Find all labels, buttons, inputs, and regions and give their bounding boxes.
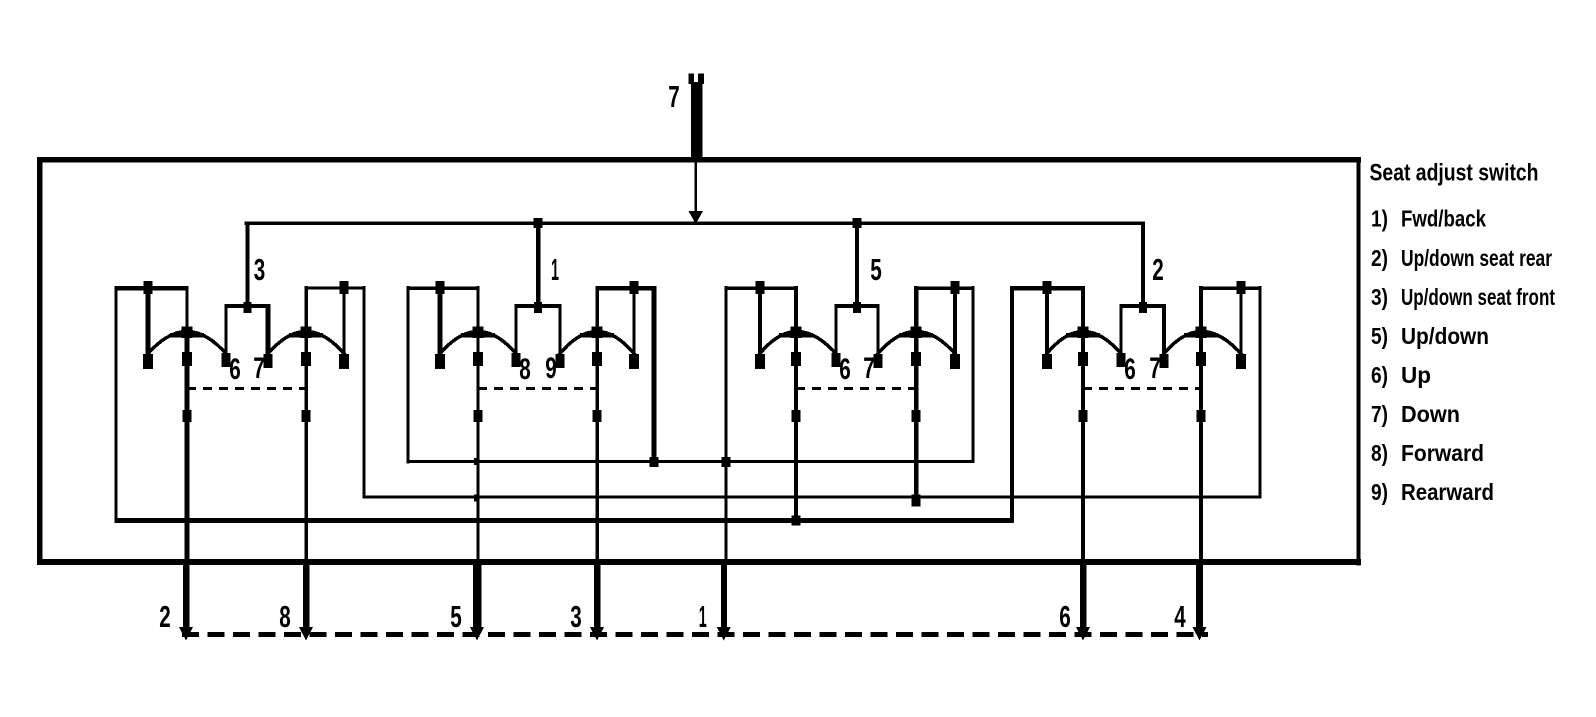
node S1 left pole lower junction xyxy=(183,410,192,422)
node S4 right pole pivot xyxy=(1184,327,1218,339)
node S3 right pole lower junction xyxy=(912,410,921,422)
label 3 (switch common wire) xyxy=(254,252,266,287)
switch S1 outer-right wire xyxy=(362,286,365,498)
wire net B (outer contacts S1-right/S3-right-pole/S4-right) xyxy=(363,496,1262,499)
switch S3 common pocket xyxy=(832,302,883,368)
svg-text:5: 5 xyxy=(450,599,462,634)
switch S3 top-right contact rail xyxy=(915,286,975,290)
switch S1 right pole wire xyxy=(304,286,308,565)
label 9 (switch S2 right throw) xyxy=(545,352,557,385)
label 6 (switch S1 left throw) xyxy=(229,353,241,386)
svg-text:9): 9) xyxy=(1371,479,1388,505)
switch S4 outer-left wire xyxy=(1010,286,1014,522)
wire pin7 to internal bus xyxy=(689,162,704,224)
label 7 (feed wire) xyxy=(668,79,680,114)
wire exit pin 2 (bottom) xyxy=(179,559,193,641)
svg-text:1: 1 xyxy=(551,252,559,287)
switch S4 common pocket xyxy=(1117,302,1169,368)
node S1 right pole lower junction xyxy=(302,410,311,422)
legend item pin 7: Down xyxy=(1371,401,1460,427)
node S3 left pole pivot xyxy=(779,327,813,339)
switch S3 top-left contact rail xyxy=(725,286,798,290)
node nub S2 left pole crossing net B xyxy=(474,494,479,501)
legend item pin 9: Rearward xyxy=(1371,479,1494,505)
wire exit pin 8 (bottom) xyxy=(299,559,313,641)
switch S1 left pole wire xyxy=(185,286,190,565)
wire net A (outer contacts S2/S3, to exit 1) xyxy=(407,460,975,463)
wire exit pin 5 (bottom) xyxy=(470,559,484,641)
label 7 (switch S4 right throw) xyxy=(1149,352,1161,385)
node S2 right contact tap xyxy=(630,281,639,294)
node S4 left pole pivot xyxy=(1066,327,1100,339)
switch S3 mechanical linkage (dashed) xyxy=(796,387,916,390)
wire bus to switch S1 common (label 3) xyxy=(246,222,250,306)
legend item pin 8: Forward xyxy=(1371,440,1484,466)
node junction S3 outer-left on net A xyxy=(722,457,731,467)
wire S4 right fixed contact xyxy=(1236,290,1246,369)
wire S1 left fixed contact xyxy=(143,290,153,369)
legend item pin 6: Up xyxy=(1371,362,1431,388)
svg-text:Up/down: Up/down xyxy=(1401,323,1489,349)
node S2 left pole lower junction xyxy=(474,410,483,422)
node S3 right contact tap xyxy=(951,281,960,294)
svg-text:Up/down seat rear: Up/down seat rear xyxy=(1401,245,1552,271)
label 5 (exit pin) xyxy=(450,599,462,634)
switch S4 left pole wire xyxy=(1081,286,1085,565)
svg-text:2): 2) xyxy=(1371,245,1388,271)
legend title: Seat adjust switch xyxy=(1370,160,1539,187)
switch S3 left pole wire xyxy=(794,286,798,520)
switch S2 mechanical linkage (dashed) xyxy=(478,387,597,390)
svg-text:7: 7 xyxy=(863,352,875,385)
wire S1 right fixed contact xyxy=(339,290,349,369)
svg-text:6: 6 xyxy=(229,353,241,386)
svg-text:3): 3) xyxy=(1371,284,1388,310)
wire S2 left fixed contact xyxy=(435,290,445,369)
svg-text:Up: Up xyxy=(1401,362,1431,388)
switch S2 left pole wire xyxy=(476,286,479,565)
node S4 left pole lower junction xyxy=(1079,410,1088,422)
svg-text:5): 5) xyxy=(1371,323,1388,349)
svg-text:8: 8 xyxy=(279,599,291,634)
svg-text:3: 3 xyxy=(570,599,582,634)
svg-text:1): 1) xyxy=(1371,206,1388,232)
wire exit pin 4 (bottom) xyxy=(1193,559,1207,641)
svg-text:4: 4 xyxy=(1174,599,1186,634)
switch S3 right pole wire xyxy=(914,286,919,497)
svg-text:7): 7) xyxy=(1371,401,1388,427)
svg-text:Up/down seat front: Up/down seat front xyxy=(1401,284,1555,310)
label 6 (switch S4 left throw) xyxy=(1124,353,1136,386)
label 6 (exit pin) xyxy=(1059,599,1071,634)
connector dashed line (bottom) xyxy=(182,632,1208,637)
wire S2 right fixed contact xyxy=(629,290,639,369)
wire S3 left fixed contact xyxy=(755,290,765,369)
node S3 right pole contact blob xyxy=(911,352,921,366)
label 7 (switch S1 right throw) xyxy=(253,352,265,385)
svg-text:1: 1 xyxy=(699,599,707,634)
svg-text:7: 7 xyxy=(668,79,680,114)
label 1 (exit pin) xyxy=(699,599,707,634)
label 2 (switch common wire) xyxy=(1152,252,1164,287)
switch S2 right rocker arc xyxy=(558,332,636,357)
node S1 left pole contact blob xyxy=(182,352,192,366)
node S2 left pole pivot xyxy=(461,327,495,339)
svg-text:Down: Down xyxy=(1401,401,1460,427)
switch S4 mechanical linkage (dashed) xyxy=(1083,387,1201,390)
svg-text:6: 6 xyxy=(1124,353,1136,386)
label 5 (switch common wire) xyxy=(870,252,882,287)
node S2 left pole contact blob xyxy=(473,352,483,366)
switch S2 left rocker arc xyxy=(438,332,518,357)
node S4 left pole contact blob xyxy=(1078,352,1088,366)
switch S4 top-right contact rail xyxy=(1200,287,1262,290)
switch S4 left rocker arc xyxy=(1045,332,1123,357)
node S4 right pole lower junction xyxy=(1197,410,1206,422)
switch S1 top-right contact rail xyxy=(305,287,366,290)
feed wire pin 7 (top entry) xyxy=(689,74,705,163)
svg-text:2: 2 xyxy=(159,599,171,634)
legend item pin 2: Up/down seat rear xyxy=(1371,245,1552,271)
switch S4 right pole wire xyxy=(1199,286,1203,565)
svg-text:8: 8 xyxy=(519,353,531,386)
switch S2 right pole wire xyxy=(595,286,599,565)
svg-text:7: 7 xyxy=(253,352,265,385)
switch S4 top-left contact rail xyxy=(1011,286,1085,290)
svg-text:7: 7 xyxy=(1149,352,1161,385)
switch S2 top-left contact rail xyxy=(407,287,480,290)
wire exit pin 3 (bottom) xyxy=(590,559,604,641)
node junction S3 left pole on net C xyxy=(792,516,801,526)
svg-text:9: 9 xyxy=(545,352,557,385)
switch S1 common pocket xyxy=(222,302,273,368)
switch S4 outer-right wire xyxy=(1258,286,1261,498)
wire exit pin 6 (bottom) xyxy=(1076,559,1090,641)
switch S2 outer-right wire xyxy=(652,286,657,463)
label 8 (exit pin) xyxy=(279,599,291,634)
label 1 (switch common wire) xyxy=(551,252,559,287)
node S2 left contact tap xyxy=(436,281,445,294)
node S2 right pole lower junction xyxy=(593,410,602,422)
node S2 right pole pivot xyxy=(580,327,614,339)
switch S1 right rocker arc xyxy=(266,332,346,357)
switch S1 left rocker arc xyxy=(146,332,228,357)
node junction S2 outer-right on net A xyxy=(650,457,659,467)
wire net C (outer contacts S1-left/S3-left-pole/S4-left) xyxy=(115,518,1014,523)
node S3 left contact tap xyxy=(756,281,765,294)
node S3 right pole pivot xyxy=(899,327,933,339)
switch S1 mechanical linkage (dashed) xyxy=(187,387,306,390)
label 6 (switch S3 left throw) xyxy=(839,353,851,386)
label 7 (switch S3 right throw) xyxy=(863,352,875,385)
switch S3 outer-left wire xyxy=(724,286,727,565)
label 3 (exit pin) xyxy=(570,599,582,634)
svg-text:6: 6 xyxy=(1059,599,1071,634)
node nub S2 left pole crossing net A xyxy=(474,458,479,465)
legend item pin 1: Fwd/back xyxy=(1371,206,1486,232)
switch S3 outer-right wire xyxy=(971,286,974,463)
wire S4 left fixed contact xyxy=(1042,290,1052,369)
switch S2 common pocket xyxy=(512,302,565,368)
svg-text:Forward: Forward xyxy=(1401,440,1484,466)
svg-text:2: 2 xyxy=(1152,252,1164,287)
svg-text:Fwd/back: Fwd/back xyxy=(1401,206,1486,232)
legend item pin 5: Up/down xyxy=(1371,323,1489,349)
svg-text:Seat adjust switch: Seat adjust switch xyxy=(1370,160,1539,187)
node S4 right contact tap xyxy=(1237,281,1246,294)
switch S1 top-left contact rail xyxy=(115,286,189,290)
svg-text:Rearward: Rearward xyxy=(1401,479,1494,505)
node S4 left contact tap xyxy=(1043,281,1052,294)
switch S2 outer-left wire xyxy=(406,286,409,463)
seat adjust switch housing box xyxy=(37,157,1361,566)
node S1 left contact tap xyxy=(144,281,153,294)
wire bus to switch S2 common (label 1) xyxy=(536,223,540,305)
switch S4 right rocker arc xyxy=(1162,332,1243,357)
svg-text:5: 5 xyxy=(870,252,882,287)
node S4 right pole contact blob xyxy=(1196,352,1206,366)
node bus junction for S3 common xyxy=(853,218,862,228)
node S3 left pole lower junction xyxy=(792,410,801,422)
label 2 (exit pin) xyxy=(159,599,171,634)
node S3 left pole contact blob xyxy=(791,352,801,366)
node S1 left pole pivot xyxy=(170,327,204,339)
node S1 right pole pivot xyxy=(289,327,323,339)
svg-text:6: 6 xyxy=(839,353,851,386)
label 8 (switch S2 left throw) xyxy=(519,353,531,386)
wire bus to switch S3 common (label 5) xyxy=(855,223,859,305)
node junction S3 right pole on net B xyxy=(912,495,921,507)
switch S2 top-right contact rail xyxy=(596,286,656,290)
svg-text:6): 6) xyxy=(1371,362,1388,388)
svg-text:8): 8) xyxy=(1371,440,1388,466)
wire bus to switch S4 common (label 2) xyxy=(1141,222,1145,306)
switch S1 outer-left wire xyxy=(114,286,117,522)
node bus junction for S2 common xyxy=(534,218,543,228)
node S1 right contact tap xyxy=(340,281,349,294)
wire exit pin 1 (bottom) xyxy=(717,559,731,641)
node S2 right pole contact blob xyxy=(592,352,602,366)
node S1 right pole contact blob xyxy=(301,352,311,366)
legend item pin 3: Up/down seat front xyxy=(1371,284,1555,310)
svg-text:3: 3 xyxy=(254,252,266,287)
switch S3 right rocker arc xyxy=(876,332,957,357)
wire S3 right fixed contact xyxy=(950,290,960,369)
label 4 (exit pin) xyxy=(1174,599,1186,634)
switch S3 left rocker arc xyxy=(758,332,838,357)
internal feed bus wire xyxy=(245,222,1145,225)
